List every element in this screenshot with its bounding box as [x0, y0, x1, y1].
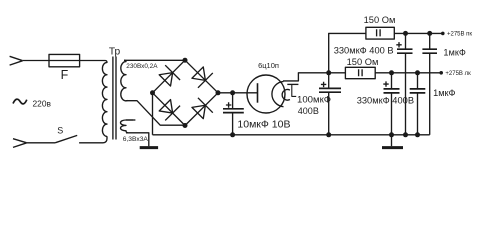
svg-text:330мкФ 400 В: 330мкФ 400 В — [334, 46, 394, 56]
tube U1 6ц10п envelope — [247, 75, 285, 113]
tube heater lead down — [292, 84, 296, 96]
ground (heater winding) — [140, 146, 158, 149]
resistor R1 150 Ом — [366, 27, 394, 39]
capacitor C1 10мкФ 10В — [223, 93, 244, 135]
node: bridge AC bottom — [183, 123, 188, 128]
svg-text:230Вх0,2А: 230Вх0,2А — [126, 63, 158, 70]
diode VD2 (bridge upper-right) — [185, 60, 218, 93]
svg-text:6,3Вх3А: 6,3Вх3А — [123, 136, 149, 143]
diode VD1 (bridge upper-left) — [153, 60, 186, 93]
wire: R1 to output 1 — [394, 32, 443, 34]
node: bridge plus (right) — [216, 90, 221, 95]
svg-text:Тр: Тр — [109, 47, 121, 58]
svg-text:400В: 400В — [298, 106, 319, 116]
node: junction C1 — [230, 90, 235, 95]
wire: secondary 230V top to bridge AC1 — [124, 59, 185, 61]
wire: input through fuse to transformer primary — [23, 60, 105, 62]
svg-text:+275В лк: +275В лк — [445, 71, 471, 77]
svg-text:6ц10п: 6ц10п — [258, 61, 279, 70]
wire: bridge plus to tube anode — [218, 92, 258, 94]
node: B+ junction — [326, 70, 331, 75]
svg-text:+275В пк: +275В пк — [447, 31, 472, 37]
node: rail dot C5 — [415, 132, 420, 137]
node: dot C3 top — [427, 31, 432, 36]
fuse F — [49, 54, 80, 66]
input terminal L — [10, 56, 23, 65]
svg-text:F: F — [61, 68, 69, 82]
ground rail wire — [153, 134, 430, 136]
wire: 6,3V top stub — [126, 119, 135, 121]
tube heater arc — [282, 89, 290, 100]
wire: input to switch — [27, 142, 55, 144]
svg-text:150 Ом: 150 Ом — [364, 15, 396, 25]
node: dot R2-C4 — [389, 70, 394, 75]
input terminal N — [13, 139, 27, 148]
diode VD3 (bridge lower-left) — [153, 93, 186, 126]
svg-text:1мкФ: 1мкФ — [433, 88, 455, 98]
wire: 6,3V bottom to heater ground — [126, 133, 149, 146]
resistor R2 150 Ом — [345, 67, 375, 78]
capacitor C5 1мкФ — [410, 73, 426, 135]
wire: secondary 230V bottom to bridge AC2 — [126, 101, 185, 126]
transformer secondary winding 230V — [121, 60, 128, 101]
ground symbol (main) — [382, 135, 403, 148]
AC source symbol ~ — [13, 99, 27, 104]
wire: bridge minus to ground rail — [152, 93, 154, 135]
node: bridge AC top — [183, 58, 188, 63]
svg-text:S: S — [57, 126, 63, 136]
capacitor C6 100мкФ 400В — [319, 73, 341, 135]
node: rail dot C2 — [403, 132, 408, 137]
wire: B+ to R2 — [329, 72, 346, 74]
capacitor C3 1мкФ — [422, 33, 437, 134]
diode VD4 (bridge lower-right) — [185, 93, 218, 126]
wire: R2 to output 2 — [375, 72, 441, 74]
tube anode bar — [287, 83, 298, 85]
tube anode plate — [257, 83, 259, 103]
svg-text:220в: 220в — [33, 99, 52, 109]
transformer secondary winding 6,3V — [120, 120, 133, 133]
node: dot C5 top — [415, 70, 420, 75]
svg-text:330мкФ 400В: 330мкФ 400В — [357, 96, 414, 106]
node: rail dot C1 — [230, 132, 235, 137]
svg-text:1мкФ: 1мкФ — [443, 48, 465, 58]
svg-text:150 Ом: 150 Ом — [347, 57, 379, 67]
wire: tube cathode out to B+ — [283, 73, 329, 81]
capacitor C2 330мкФ 400 В — [396, 33, 412, 134]
capacitor C4 330мкФ 400В — [383, 73, 399, 135]
switch S — [55, 135, 77, 142]
tube cathode arc — [272, 81, 284, 106]
transformer core — [113, 57, 116, 140]
wire: switch to transformer primary bottom — [79, 136, 107, 143]
svg-text:10мкФ 10В: 10мкФ 10В — [237, 118, 290, 130]
node: bridge minus (left) — [150, 90, 155, 95]
output terminal +275В пк — [441, 31, 472, 37]
svg-text:100мкФ: 100мкФ — [297, 94, 331, 105]
node: dot R1-C2 — [403, 31, 408, 36]
node: rail dot C4/ground — [389, 132, 394, 137]
wire: B+ rail up to R1 — [329, 33, 366, 72]
node: rail dot C6 — [326, 132, 331, 137]
transformer Tp primary winding — [102, 61, 107, 137]
output terminal +275В лк — [439, 71, 471, 77]
